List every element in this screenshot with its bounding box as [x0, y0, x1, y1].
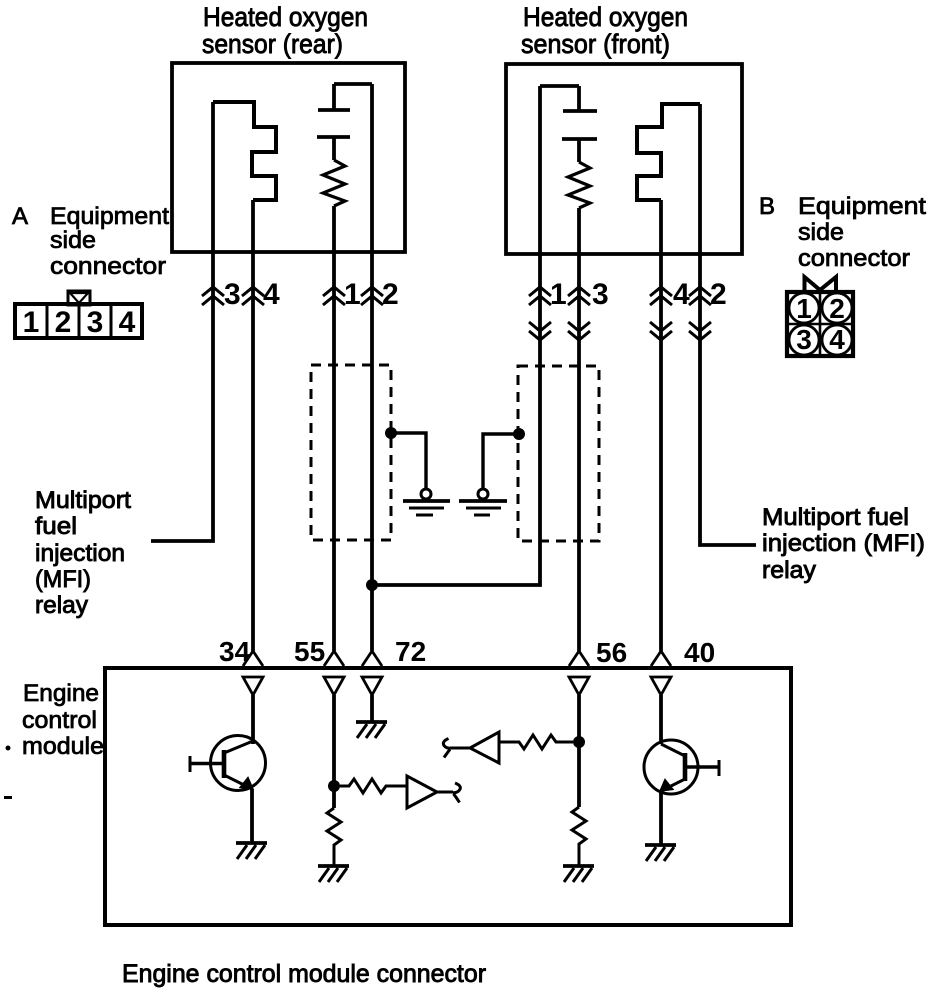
ECM input triangle pin 55 [324, 677, 344, 695]
label: A equipment side connector [12, 203, 169, 280]
connector A body [15, 304, 142, 338]
shield ground wire (left) [385, 427, 426, 489]
svg-text:56: 56 [596, 637, 627, 668]
svg-text:A: A [12, 203, 28, 230]
ground under pin 55 resistor [318, 866, 349, 882]
ECM input triangle pin 56 [569, 677, 589, 695]
resistor right of pin 55 node [340, 779, 407, 793]
resistor pin 55 to ground [327, 808, 341, 866]
label: Heated oxygen sensor (front) [521, 2, 688, 59]
ECM input triangle pin 34 [243, 677, 263, 695]
resistor inside rear sensor [323, 160, 345, 206]
buffer amplifier U2 (points left) [470, 732, 499, 763]
svg-text:1: 1 [796, 293, 812, 324]
pin fork 56 [569, 651, 589, 666]
svg-text:Engine: Engine [23, 680, 99, 707]
wire: front cell top horizontal [540, 84, 579, 88]
front oxygen sensor box [506, 64, 742, 254]
resistor inside front sensor [568, 162, 590, 208]
connector chevrons rear wire 2 [361, 287, 383, 305]
wire Q1 emitter to ground [250, 789, 254, 843]
ECM pin 40 label [684, 637, 715, 668]
connector chevrons front wire 2 [689, 287, 711, 340]
svg-text:3: 3 [224, 278, 241, 311]
label: Engine control module [22, 680, 104, 760]
svg-text:3: 3 [87, 306, 104, 339]
svg-text:(MFI): (MFI) [35, 566, 91, 593]
sensor cell plates (front sensor) [562, 86, 597, 162]
connector B pin numbers [796, 293, 845, 355]
pin fork 72 [362, 651, 382, 666]
svg-text:2: 2 [55, 306, 72, 339]
output squiggle U1 [437, 783, 460, 803]
wire pin55 down [332, 695, 336, 808]
junction dot pin 56 [573, 736, 585, 748]
svg-text:relay: relay [762, 557, 816, 584]
wire 1 (rear) to ECM pin 55 [332, 206, 336, 651]
label: Multiport fuel injection (MFI) relay (left) [35, 487, 131, 619]
svg-text:injection (MFI): injection (MFI) [762, 530, 925, 557]
svg-text:sensor (front): sensor (front) [521, 29, 670, 59]
svg-text:4: 4 [263, 278, 280, 311]
shield dashed box (right) [518, 366, 599, 541]
output squiggle U2 [443, 739, 470, 758]
svg-text:3: 3 [796, 324, 812, 355]
connector B crest [805, 277, 837, 292]
junction dot on wire 2/1 interconnect [366, 579, 378, 591]
ECM pin 56 label [596, 637, 627, 668]
svg-text:Heated oxygen: Heated oxygen [203, 2, 368, 32]
ground under pin 72 [356, 722, 387, 738]
svg-text:side: side [798, 219, 844, 246]
svg-text:Heated oxygen: Heated oxygen [523, 2, 688, 32]
scan speck left margin [6, 746, 11, 751]
svg-text:sensor (rear): sensor (rear) [202, 29, 343, 59]
label rear pin 2 [382, 278, 399, 311]
buffer amplifier U1 (points right) [407, 776, 437, 808]
label rear pin 4 [263, 278, 280, 311]
heater element (rear sensor) [213, 102, 276, 200]
shield dashed box (left) [311, 365, 391, 540]
svg-text:1: 1 [23, 306, 40, 339]
svg-text:40: 40 [684, 637, 715, 668]
label: Multiport fuel injection (MFI) relay (right) [762, 504, 925, 584]
connector chevrons front wire 1 [529, 287, 551, 340]
pin fork 34 [243, 651, 263, 666]
label front pin 3 [592, 278, 609, 311]
svg-text:3: 3 [592, 278, 609, 311]
wire 3 (rear) to MFI relay [151, 102, 213, 541]
svg-text:side: side [50, 227, 96, 254]
wire 3 (front) to ECM pin 56 [577, 208, 581, 651]
wire Q2 emitter to ground [659, 791, 663, 845]
ground under Q1 [236, 843, 267, 859]
transistor Q2 [644, 740, 719, 794]
svg-text:connector: connector [50, 253, 166, 280]
ECM input triangle pin 40 [651, 677, 671, 695]
junction dot pin 55 [328, 780, 340, 792]
shield ground wire (right) [483, 428, 525, 489]
svg-text:connector: connector [798, 245, 910, 272]
label front pin 2 [710, 278, 727, 311]
svg-text:1: 1 [550, 278, 567, 311]
svg-text:Equipment: Equipment [50, 203, 169, 230]
connector A pin numbers [23, 306, 136, 339]
connector B body [787, 292, 853, 356]
wire pin40 to transistor Q2 [659, 695, 663, 744]
ECM pin 55 label [294, 636, 325, 667]
scan speck left margin 2 [4, 796, 12, 799]
label: Heated oxygen sensor (rear) [202, 2, 368, 59]
label: B equipment side connector [759, 193, 926, 272]
rear oxygen sensor box [172, 63, 405, 252]
svg-text:1: 1 [344, 278, 361, 311]
connector A lock tab [68, 291, 90, 305]
pin fork 55 [324, 651, 344, 666]
resistor pin 56 to ground [572, 807, 586, 866]
svg-text:control: control [22, 707, 97, 734]
wire 2 (rear) to ECM pin 72 [370, 84, 374, 651]
connector chevrons front wire 4 [650, 287, 672, 340]
wire pin72 to ground [370, 695, 374, 722]
engine control module box [105, 668, 791, 925]
pin fork 40 [651, 651, 671, 666]
wire 4 (rear) to ECM pin 34 [251, 200, 255, 651]
svg-text:4: 4 [829, 324, 845, 355]
ground under Q2 [645, 845, 676, 861]
ECM pin 72 label [395, 636, 426, 667]
connector chevrons rear wire 3 [202, 287, 224, 305]
connector chevrons front wire 3 [568, 287, 590, 340]
ECM pin 34 label [219, 636, 251, 667]
ECM input triangle pin 72 [362, 677, 382, 695]
wire 1 (front) joins rear wire 2 [372, 86, 540, 585]
wire pin34 to transistor Q1 [251, 695, 255, 744]
svg-text:72: 72 [395, 636, 426, 667]
sensor cell plates (rear sensor) [317, 84, 350, 160]
label front pin 1 [550, 278, 567, 311]
svg-text:B: B [759, 193, 775, 220]
svg-text:2: 2 [829, 293, 845, 324]
body ground symbol (left) [403, 489, 450, 515]
svg-text:Equipment: Equipment [798, 193, 926, 220]
wire pin56 down [577, 695, 581, 807]
label rear pin 1 [344, 278, 361, 311]
resistor left of pin 56 node [499, 735, 573, 749]
svg-text:injection: injection [35, 540, 125, 567]
wire: rear cell top horizontal [334, 82, 372, 86]
label rear pin 3 [224, 278, 241, 311]
wire 4 (front) to ECM pin 40 [659, 200, 663, 651]
svg-text:Multiport: Multiport [35, 487, 131, 514]
transistor Q1 [190, 736, 266, 791]
svg-text:fuel: fuel [35, 513, 77, 540]
svg-text:2: 2 [710, 278, 727, 311]
svg-text:4: 4 [119, 306, 136, 339]
heater element (front sensor) [637, 104, 700, 200]
ground under pin 56 resistor [563, 866, 594, 882]
label: Engine control module connector [122, 960, 486, 988]
svg-text:module: module [22, 733, 104, 760]
svg-text:Multiport fuel: Multiport fuel [762, 504, 909, 531]
svg-text:2: 2 [382, 278, 399, 311]
svg-text:relay: relay [35, 592, 88, 619]
svg-text:Engine control module connecto: Engine control module connector [122, 960, 486, 988]
wire 2 (front) to MFI relay [700, 104, 756, 545]
svg-text:55: 55 [294, 636, 325, 667]
body ground symbol (right) [459, 489, 507, 515]
label front pin 4 [673, 278, 690, 311]
connector chevrons rear wire 1 [323, 287, 345, 305]
connector chevrons rear wire 4 [242, 287, 264, 305]
svg-text:4: 4 [673, 278, 690, 311]
